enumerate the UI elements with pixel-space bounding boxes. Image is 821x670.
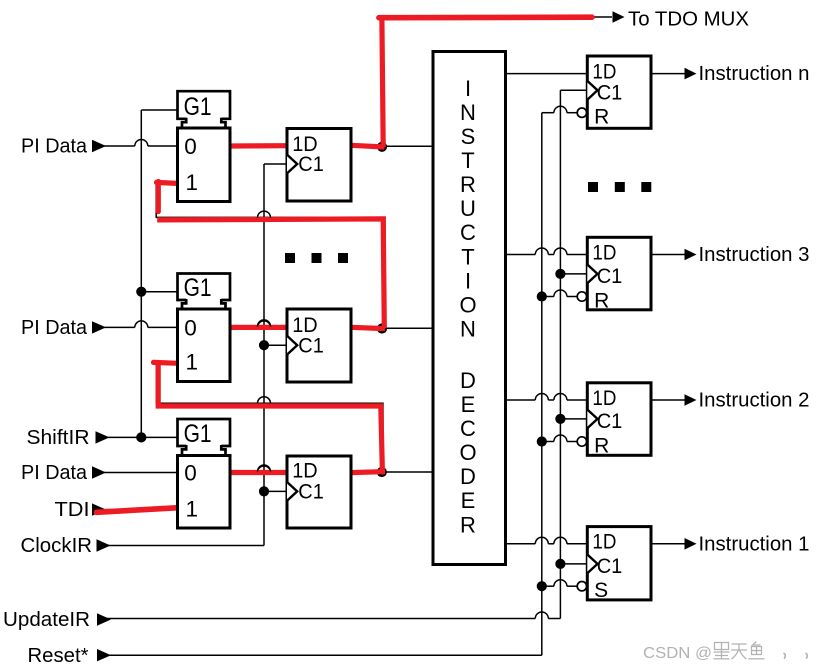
svg-text:UpdateIR: UpdateIR <box>3 608 90 631</box>
input arrow PI Data <box>92 140 106 152</box>
wire PI Data 3 <box>104 472 178 474</box>
wire select vertical <box>140 110 142 437</box>
wire FF1 Q to TDO <box>382 17 613 147</box>
input arrow TDI <box>92 503 106 515</box>
mux M3 G1 control box <box>178 419 231 446</box>
input arrow PI Data <box>92 321 106 333</box>
svg-text:0: 0 <box>184 134 197 159</box>
instruction decoder box <box>433 52 506 565</box>
wire Update to FF 3 C1 <box>560 273 587 275</box>
svg-text:CSDN @: CSDN @ <box>643 645 712 662</box>
highlight mux1 to FF1 <box>231 143 287 149</box>
output flip-flop Instruction 3 body <box>587 237 651 309</box>
node Update junction FF 3 <box>555 269 565 279</box>
wire hop over clock line at y=404.3 <box>258 397 271 404</box>
svg-text:0: 0 <box>184 460 197 485</box>
svg-text:C1: C1 <box>597 410 623 433</box>
pin bubble S input <box>577 582 586 591</box>
mux M2 G1 control box <box>178 274 231 301</box>
flip-flop FF2 clock triangle <box>287 336 297 355</box>
node FF2 output junction <box>377 323 387 333</box>
wire Reset to FF 3 R <box>542 296 554 298</box>
watermark comma 1 <box>784 653 786 659</box>
svg-text:C1: C1 <box>597 82 623 105</box>
mux M3 neck notch left <box>182 445 186 456</box>
input arrow PI Data <box>92 466 106 478</box>
output arrow Instruction 2 <box>685 394 697 406</box>
svg-text:TDI: TDI <box>55 498 90 521</box>
node FF1 output junction <box>377 142 387 152</box>
mux M1 body <box>178 128 231 202</box>
node ShiftIR junction <box>136 432 146 442</box>
flip-flop FF1 body <box>287 129 351 202</box>
svg-text:1D: 1D <box>592 531 616 554</box>
svg-text:ClockIR: ClockIR <box>21 534 93 557</box>
svg-text:1D: 1D <box>292 459 318 482</box>
svg-text:1: 1 <box>186 496 199 521</box>
ellipsis dot left 3 <box>338 253 348 263</box>
wire hop over clock line at y=472.5 <box>258 465 271 471</box>
wire PI Data 1 <box>104 145 135 147</box>
svg-text:S: S <box>594 579 608 602</box>
wire decoder to FF n 1D <box>506 73 588 75</box>
node Update junction FF 2 <box>555 414 565 424</box>
svg-text:PI Data: PI Data <box>21 316 88 339</box>
ellipsis dot left 2 <box>312 253 322 263</box>
highlight feedback FF2 to mux1 <box>157 219 384 328</box>
wire clock to FF3 C1 <box>264 490 287 492</box>
svg-text:1D: 1D <box>592 387 616 410</box>
svg-text:R: R <box>594 106 609 129</box>
input arrow ClockIR <box>97 539 111 551</box>
output arrow Instruction n <box>685 68 697 80</box>
wire feedback FF2 to mux1 (under highlight) <box>156 182 385 328</box>
wire FF2 Q to decoder <box>351 327 433 329</box>
pin bubble R input <box>577 108 586 117</box>
wire UpdateIR <box>104 618 535 620</box>
flip-flop FF2 body <box>287 309 351 382</box>
node Reset junction FF 3 <box>537 291 547 301</box>
wire ShiftIR to select node <box>104 436 178 438</box>
svg-text:G1: G1 <box>184 274 212 302</box>
svg-text:C1: C1 <box>597 265 623 288</box>
svg-text:G1: G1 <box>184 93 212 121</box>
watermark comma 2 <box>806 653 808 659</box>
output flip-flop Instruction 1 clock triangle <box>587 555 597 574</box>
wire output Instruction 2 <box>651 399 687 401</box>
wire hop over clock line at y=327.4 <box>258 320 271 327</box>
highlight feedback FF3 to mux2 <box>158 365 382 473</box>
svg-text:R: R <box>594 289 609 312</box>
svg-text:ShiftIR: ShiftIR <box>27 426 90 449</box>
wire UpdateIR vertical <box>559 90 561 618</box>
output flip-flop Instruction 2 clock triangle <box>587 410 597 429</box>
output flip-flop Instruction 3 clock triangle <box>587 265 597 284</box>
output flip-flop Instruction 2 body <box>587 383 651 456</box>
node FF3 output junction <box>377 467 387 477</box>
node Reset junction FF 2 <box>537 436 547 446</box>
wire decoder to FF 3 1D <box>506 254 536 256</box>
wire mux2 out to FF2 D <box>230 326 258 328</box>
pin bubble R input <box>577 292 586 301</box>
wire Update to FF 1 C1 <box>560 563 587 565</box>
svg-text:1: 1 <box>186 350 199 375</box>
node Reset junction FF 1 <box>537 581 547 591</box>
wire Update to FF n C1 <box>560 89 587 91</box>
watermark glyph 1 <box>714 643 730 659</box>
mux M3 body <box>178 456 231 529</box>
svg-text:0: 0 <box>184 315 197 340</box>
svg-text:C1: C1 <box>298 153 324 176</box>
svg-text:PI Data: PI Data <box>21 461 88 484</box>
wire Reset* <box>104 654 542 656</box>
highlight FF1 to TDO MUX <box>382 20 383 148</box>
wire clock to FF2 C1 <box>264 344 287 346</box>
svg-text:C1: C1 <box>597 555 623 578</box>
wire Reset* vertical <box>541 113 543 656</box>
mux M2 body <box>178 309 231 382</box>
wire output Instruction 3 <box>651 254 687 256</box>
svg-text:G1: G1 <box>184 420 212 448</box>
wire output Instruction n <box>651 73 687 75</box>
wire mux1 out to FF1 D <box>230 145 287 147</box>
svg-text:Reset*: Reset* <box>28 644 89 667</box>
highlight mux3 to FF3 <box>231 470 287 475</box>
node clock FF2 junction <box>259 340 269 350</box>
wire select to G1 mux2 <box>141 291 177 293</box>
wire decoder to FF 1 1D <box>506 543 536 545</box>
wire FF1 Q to decoder <box>351 145 433 147</box>
highlight TDI input <box>97 508 177 513</box>
wire TDI to mux3 <box>100 509 178 511</box>
wire PI Data 2 <box>104 326 135 328</box>
wire select to G1 mux1 <box>141 109 177 111</box>
wire Reset to FF n R <box>542 112 554 114</box>
highlight FF3 out <box>351 472 385 473</box>
svg-text:C1: C1 <box>298 334 324 357</box>
mux M1 neck notch left <box>182 118 186 128</box>
output flip-flop Instruction n clock triangle <box>587 81 597 100</box>
wire ClockIR horizontal <box>104 545 264 547</box>
svg-text:1: 1 <box>186 170 199 195</box>
node clock FF3 junction <box>259 486 269 496</box>
ellipsis dot right 3 <box>641 182 651 192</box>
node select to G1 mux2 junction <box>136 287 146 297</box>
input arrow UpdateIR <box>97 613 111 625</box>
mux M1 G1 control box <box>178 91 231 119</box>
svg-text:R: R <box>594 434 609 457</box>
wire feedback FF3 to mux2 (under highlight) <box>156 362 383 472</box>
watermark glyph 2 <box>731 644 747 659</box>
ellipsis dot left 1 <box>285 253 295 263</box>
wire Reset to FF 2 R <box>542 441 554 443</box>
svg-text:To TDO MUX: To TDO MUX <box>628 8 749 31</box>
wire clock to FF1 C1 <box>264 163 287 165</box>
svg-text:Instruction 3: Instruction 3 <box>699 243 810 266</box>
wire Reset to FF 1 S <box>542 585 554 587</box>
svg-text:Instruction 2: Instruction 2 <box>699 389 810 412</box>
svg-text:PI Data: PI Data <box>21 135 88 158</box>
wire mux3 out to FF3 D <box>230 472 258 474</box>
svg-text:1D: 1D <box>592 60 616 83</box>
input arrow ShiftIR <box>96 431 110 443</box>
wire ClockIR vertical <box>263 164 265 546</box>
pin bubble R input <box>577 437 586 446</box>
svg-text:Instruction 1: Instruction 1 <box>699 532 810 555</box>
output flip-flop Instruction 1 body <box>587 527 651 600</box>
wire FF3 Q to decoder <box>351 471 433 473</box>
mux M2 neck notch right <box>221 299 225 309</box>
flip-flop FF3 body <box>287 456 351 528</box>
ellipsis dot right 2 <box>615 182 625 192</box>
svg-text:1D: 1D <box>592 241 616 264</box>
flip-flop FF1 clock triangle <box>287 155 297 174</box>
input arrow Reset* <box>97 649 111 661</box>
highlight mux2 to FF2 <box>231 325 287 330</box>
wire hop over clock line at y=218.6 <box>258 211 271 218</box>
output arrow Instruction 1 <box>685 538 697 550</box>
highlight FF1 out <box>351 145 385 147</box>
output flip-flop Instruction n body <box>587 56 651 128</box>
ellipsis dot right 1 <box>588 182 598 192</box>
watermark glyph 3 <box>749 642 765 659</box>
wire Update to FF 2 C1 <box>560 418 587 420</box>
output arrow Instruction 3 <box>685 249 697 261</box>
wire decoder to FF 2 1D <box>506 399 536 401</box>
highlight FF2 out <box>351 327 385 328</box>
mux M3 neck notch right <box>221 445 225 456</box>
mux M2 neck notch left <box>182 299 186 309</box>
svg-text:INSTRUCTIONDECODER: INSTRUCTIONDECODER <box>459 76 476 537</box>
svg-text:C1: C1 <box>298 481 324 504</box>
svg-text:Instruction n: Instruction n <box>699 62 810 85</box>
mux M1 neck notch right <box>221 118 225 128</box>
wire output Instruction 1 <box>651 543 687 545</box>
node Update junction FF 1 <box>555 559 565 569</box>
output arrow To TDO MUX <box>613 11 625 23</box>
flip-flop FF3 clock triangle <box>287 482 297 501</box>
